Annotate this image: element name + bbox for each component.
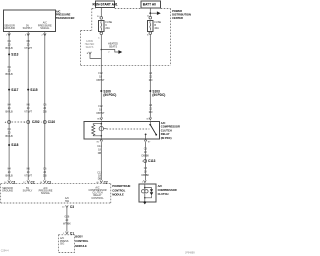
svg-text:C1: C1	[47, 180, 51, 184]
svg-text:C113: C113	[148, 159, 156, 163]
wire label row3 right	[43, 103, 47, 113]
wire label K4 20 BK/LB row1 left	[6, 40, 13, 50]
svg-text:BK/LB: BK/LB	[6, 47, 13, 50]
body control module dashed box	[59, 235, 75, 253]
svg-text:C2: C2	[104, 180, 108, 184]
svg-text:RD: RD	[149, 79, 153, 82]
fuse C value label	[105, 21, 112, 30]
relay coil	[92, 121, 107, 139]
svg-text:CONTROL: CONTROL	[112, 188, 125, 192]
fuse B terminal A	[147, 15, 151, 19]
svg-text:DB: DB	[43, 175, 47, 178]
A/C COMPRESSOR CLUTCH RELAY (IN PDC) label	[161, 121, 180, 140]
PDC dashed boundary bottom	[81, 65, 171, 67]
relay terminal 87	[144, 139, 151, 144]
wire label K4 20 BK/LB row2 left	[6, 66, 13, 76]
wire from START A41 to fuse C	[100, 7, 102, 16]
svg-text:SEATS: SEATS	[86, 46, 94, 49]
svg-text:CENTER: CENTER	[172, 16, 183, 20]
splice S100 (in PDC)	[100, 89, 116, 97]
svg-text:GROUND: GROUND	[2, 190, 13, 193]
label A/C PRESSURE TRANSDUCER	[56, 9, 75, 20]
svg-text:RD: RD	[149, 111, 153, 114]
wire label row3 left	[6, 103, 13, 113]
PDC dashed boundary left (notched)	[91, 9, 93, 31]
wire label row5 left	[6, 168, 13, 178]
BATT A0 box	[141, 1, 161, 8]
PCM pin 40 C2 (relay control)	[96, 180, 108, 184]
connector pin 1 at transducer	[6, 33, 11, 36]
wire joining fuse C wire	[90, 54, 101, 58]
svg-text:BK/LB: BK/LB	[6, 175, 13, 178]
svg-text:COMPRESSOR: COMPRESSOR	[158, 188, 177, 192]
svg-text:SW: SW	[65, 200, 70, 203]
svg-text:CONTROL: CONTROL	[75, 239, 88, 243]
connector C110	[41, 120, 56, 124]
PCM internal label a/c sw (to BCM)	[65, 197, 70, 203]
splice S113	[8, 53, 19, 57]
wire label row3 middle	[24, 103, 32, 113]
PCM output pin 10 C3 to BCM	[62, 205, 74, 209]
relay switch arm	[149, 121, 157, 136]
clutch coil and diode	[142, 184, 154, 205]
svg-text:C1: C1	[11, 180, 15, 184]
pin label 5V SUPPLY	[23, 24, 33, 30]
PCM top dashed edge	[1, 183, 111, 185]
pin label SENSOR GROUND	[4, 24, 15, 30]
START A41 box	[93, 1, 118, 7]
svg-text:DB: DB	[98, 152, 102, 155]
splice S103 (in PDC)	[149, 89, 165, 97]
wire label K6 20 VT/WT row1 middle	[24, 40, 32, 50]
svg-text:SUPPLY: SUPPLY	[23, 27, 33, 30]
svg-text:DB: DB	[98, 177, 102, 180]
fuse C bottom terminal	[98, 32, 103, 39]
svg-text:S113: S113	[11, 53, 18, 57]
wire fuse C down to relay	[100, 35, 102, 118]
connector pin 2 at transducer	[41, 33, 46, 36]
terminal B of off-page feed	[87, 52, 92, 55]
PCM pin 17 C2	[23, 180, 35, 184]
svg-text:S118: S118	[11, 143, 18, 147]
a/c compressor clutch box	[139, 184, 156, 202]
PDC dashed boundary top	[115, 8, 141, 10]
PCM pin 14 C1	[40, 180, 52, 184]
svg-text:20A: 20A	[105, 27, 110, 30]
svg-text:C3: C3	[70, 205, 74, 209]
svg-text:S115: S115	[30, 88, 37, 92]
fuse C terminal 30	[97, 16, 103, 19]
POWER DISTRIBUTION CENTER label	[172, 9, 191, 20]
svg-text:POWERTRAIN: POWERTRAIN	[112, 184, 130, 188]
svg-text:DB/WT: DB/WT	[96, 112, 105, 115]
svg-text:VT/WT: VT/WT	[24, 175, 32, 178]
svg-text:DB/BK: DB/BK	[142, 155, 150, 158]
splice S115	[27, 88, 38, 92]
fuse B body	[148, 20, 153, 31]
svg-text:BK/LB: BK/LB	[6, 73, 13, 76]
wire label C3 18 DB/BK lower	[142, 167, 150, 177]
connector pin 4 at transducer	[25, 33, 30, 36]
wire label A0 12 RD upper	[149, 72, 153, 82]
PCM left dashed edge	[0, 184, 2, 203]
wire label row4 left	[6, 128, 13, 138]
wire 5v supply (middle column)	[27, 32, 29, 180]
connector C113	[142, 159, 156, 163]
batt branch arrow	[149, 11, 160, 15]
wire label F12 18 DB/WT lower	[96, 105, 105, 115]
connector C202	[24, 120, 40, 124]
wire label G26 20 WT/BK	[63, 215, 71, 225]
off-page ref heated seats feed	[85, 40, 95, 49]
svg-text:A/C: A/C	[161, 121, 166, 125]
wire a/c pressure signal (right column)	[44, 32, 46, 180]
relay terminal 30	[146, 118, 151, 121]
A/C pressure transducer box	[4, 10, 56, 32]
wire PCM to BCM	[66, 208, 68, 232]
wire fuse B down to relay	[149, 34, 151, 118]
svg-text:40A: 40A	[154, 27, 159, 30]
a/c compressor clutch relay box	[84, 121, 160, 138]
wire label C3 18 DB/BK upper	[142, 148, 150, 158]
tie line between connectors	[12, 121, 26, 123]
svg-text:C110: C110	[48, 120, 56, 124]
PCM bottom dashed edge	[1, 202, 111, 204]
PCM internal label a/c compressor clutch relay control	[88, 186, 106, 199]
svg-text:CLUTCH: CLUTCH	[161, 128, 172, 132]
svg-text:CONTROL: CONTROL	[91, 197, 104, 200]
wire relay 87 to clutch	[145, 141, 147, 180]
PCM internal label sensor ground	[2, 187, 13, 193]
svg-text:C294-4: C294-4	[1, 250, 10, 253]
PCM right dashed edge	[110, 184, 112, 203]
fuse C body	[99, 21, 104, 32]
fuse B value label	[154, 21, 161, 30]
wire label row5 right	[43, 168, 47, 178]
svg-text:RUN-START A41: RUN-START A41	[93, 3, 118, 7]
svg-text:SIGNAL: SIGNAL	[41, 192, 51, 195]
wire label F12 18 DB/WT upper	[96, 72, 105, 82]
svg-text:POWER: POWER	[172, 9, 182, 13]
in-line connector row: connector A	[5, 121, 11, 125]
wire label row5 middle	[24, 168, 32, 178]
svg-text:C2: C2	[31, 180, 35, 184]
svg-text:BODY: BODY	[75, 234, 83, 238]
PCM internal label a/c pressure signal	[39, 187, 53, 195]
PDC dashed boundary right	[170, 9, 172, 66]
BCM pin 1 C1	[63, 231, 74, 235]
svg-text:DB: DB	[43, 110, 47, 113]
svg-text:MODULE: MODULE	[112, 193, 124, 197]
svg-text:COMPRESSOR: COMPRESSOR	[161, 125, 180, 129]
wire from BATT A0 to fuse B	[149, 8, 151, 17]
svg-text:BATT A0: BATT A0	[143, 3, 156, 7]
splice S118	[8, 143, 19, 147]
relay terminal 86	[97, 118, 102, 121]
pin label A/C PRESSURE SIGNAL	[38, 22, 52, 30]
A/C COMPRESSOR CLUTCH label	[158, 184, 177, 196]
relay contact 87	[145, 134, 147, 139]
svg-text:TRANSDUCER: TRANSDUCER	[56, 16, 75, 20]
BODY CONTROL MODULE label	[75, 234, 88, 247]
heated seats branch arrow	[101, 42, 123, 54]
svg-text:C202: C202	[32, 120, 40, 124]
wire sensor ground (left column)	[8, 32, 10, 180]
svg-text:SEATS: SEATS	[109, 45, 117, 48]
wire label C13 18 DB upper	[97, 145, 102, 155]
svg-text:A/C: A/C	[158, 184, 163, 188]
svg-text:SIGNAL: SIGNAL	[40, 27, 50, 30]
svg-text:DB/WT: DB/WT	[96, 79, 105, 82]
PCM pin 16 C1	[4, 180, 16, 184]
svg-text:SIG: SIG	[60, 242, 64, 245]
POWERTRAIN CONTROL MODULE label	[112, 184, 130, 197]
svg-text:(IN PDC): (IN PDC)	[161, 136, 172, 140]
svg-text:MODULE: MODULE	[75, 244, 87, 248]
svg-text:(IN PDC): (IN PDC)	[152, 93, 165, 97]
svg-text:WT/BK: WT/BK	[63, 222, 71, 225]
wire label A0 12 RD lower	[149, 104, 153, 114]
PCM internal label 5v supply	[23, 187, 33, 193]
svg-text:CLUTCH: CLUTCH	[158, 192, 169, 196]
wire label C13 18 DB lower	[97, 171, 102, 180]
svg-text:RELAY: RELAY	[161, 132, 170, 136]
svg-text:(IN PDC): (IN PDC)	[103, 93, 116, 97]
svg-text:BK/LB: BK/LB	[6, 110, 13, 113]
svg-text:VT/WT: VT/WT	[24, 110, 32, 113]
BCM internal label	[60, 237, 69, 245]
svg-text:JP948B9: JP948B9	[185, 251, 195, 254]
splice S117	[8, 88, 19, 92]
relay actuator dashed link	[107, 128, 150, 130]
svg-text:GROUND: GROUND	[4, 27, 15, 30]
svg-text:DISTRIBUTION: DISTRIBUTION	[172, 12, 191, 16]
svg-text:VT/WT: VT/WT	[24, 47, 32, 50]
fuse B bottom terminal	[147, 32, 152, 37]
svg-text:S117: S117	[11, 88, 18, 92]
relay terminal 85	[97, 139, 103, 144]
wire relay 85 to PCM	[100, 141, 102, 180]
svg-text:DB/BK: DB/BK	[142, 174, 150, 177]
svg-text:BK/LB: BK/LB	[6, 135, 13, 138]
clutch terminal 1	[142, 180, 147, 183]
svg-text:SUPPLY: SUPPLY	[23, 190, 33, 193]
